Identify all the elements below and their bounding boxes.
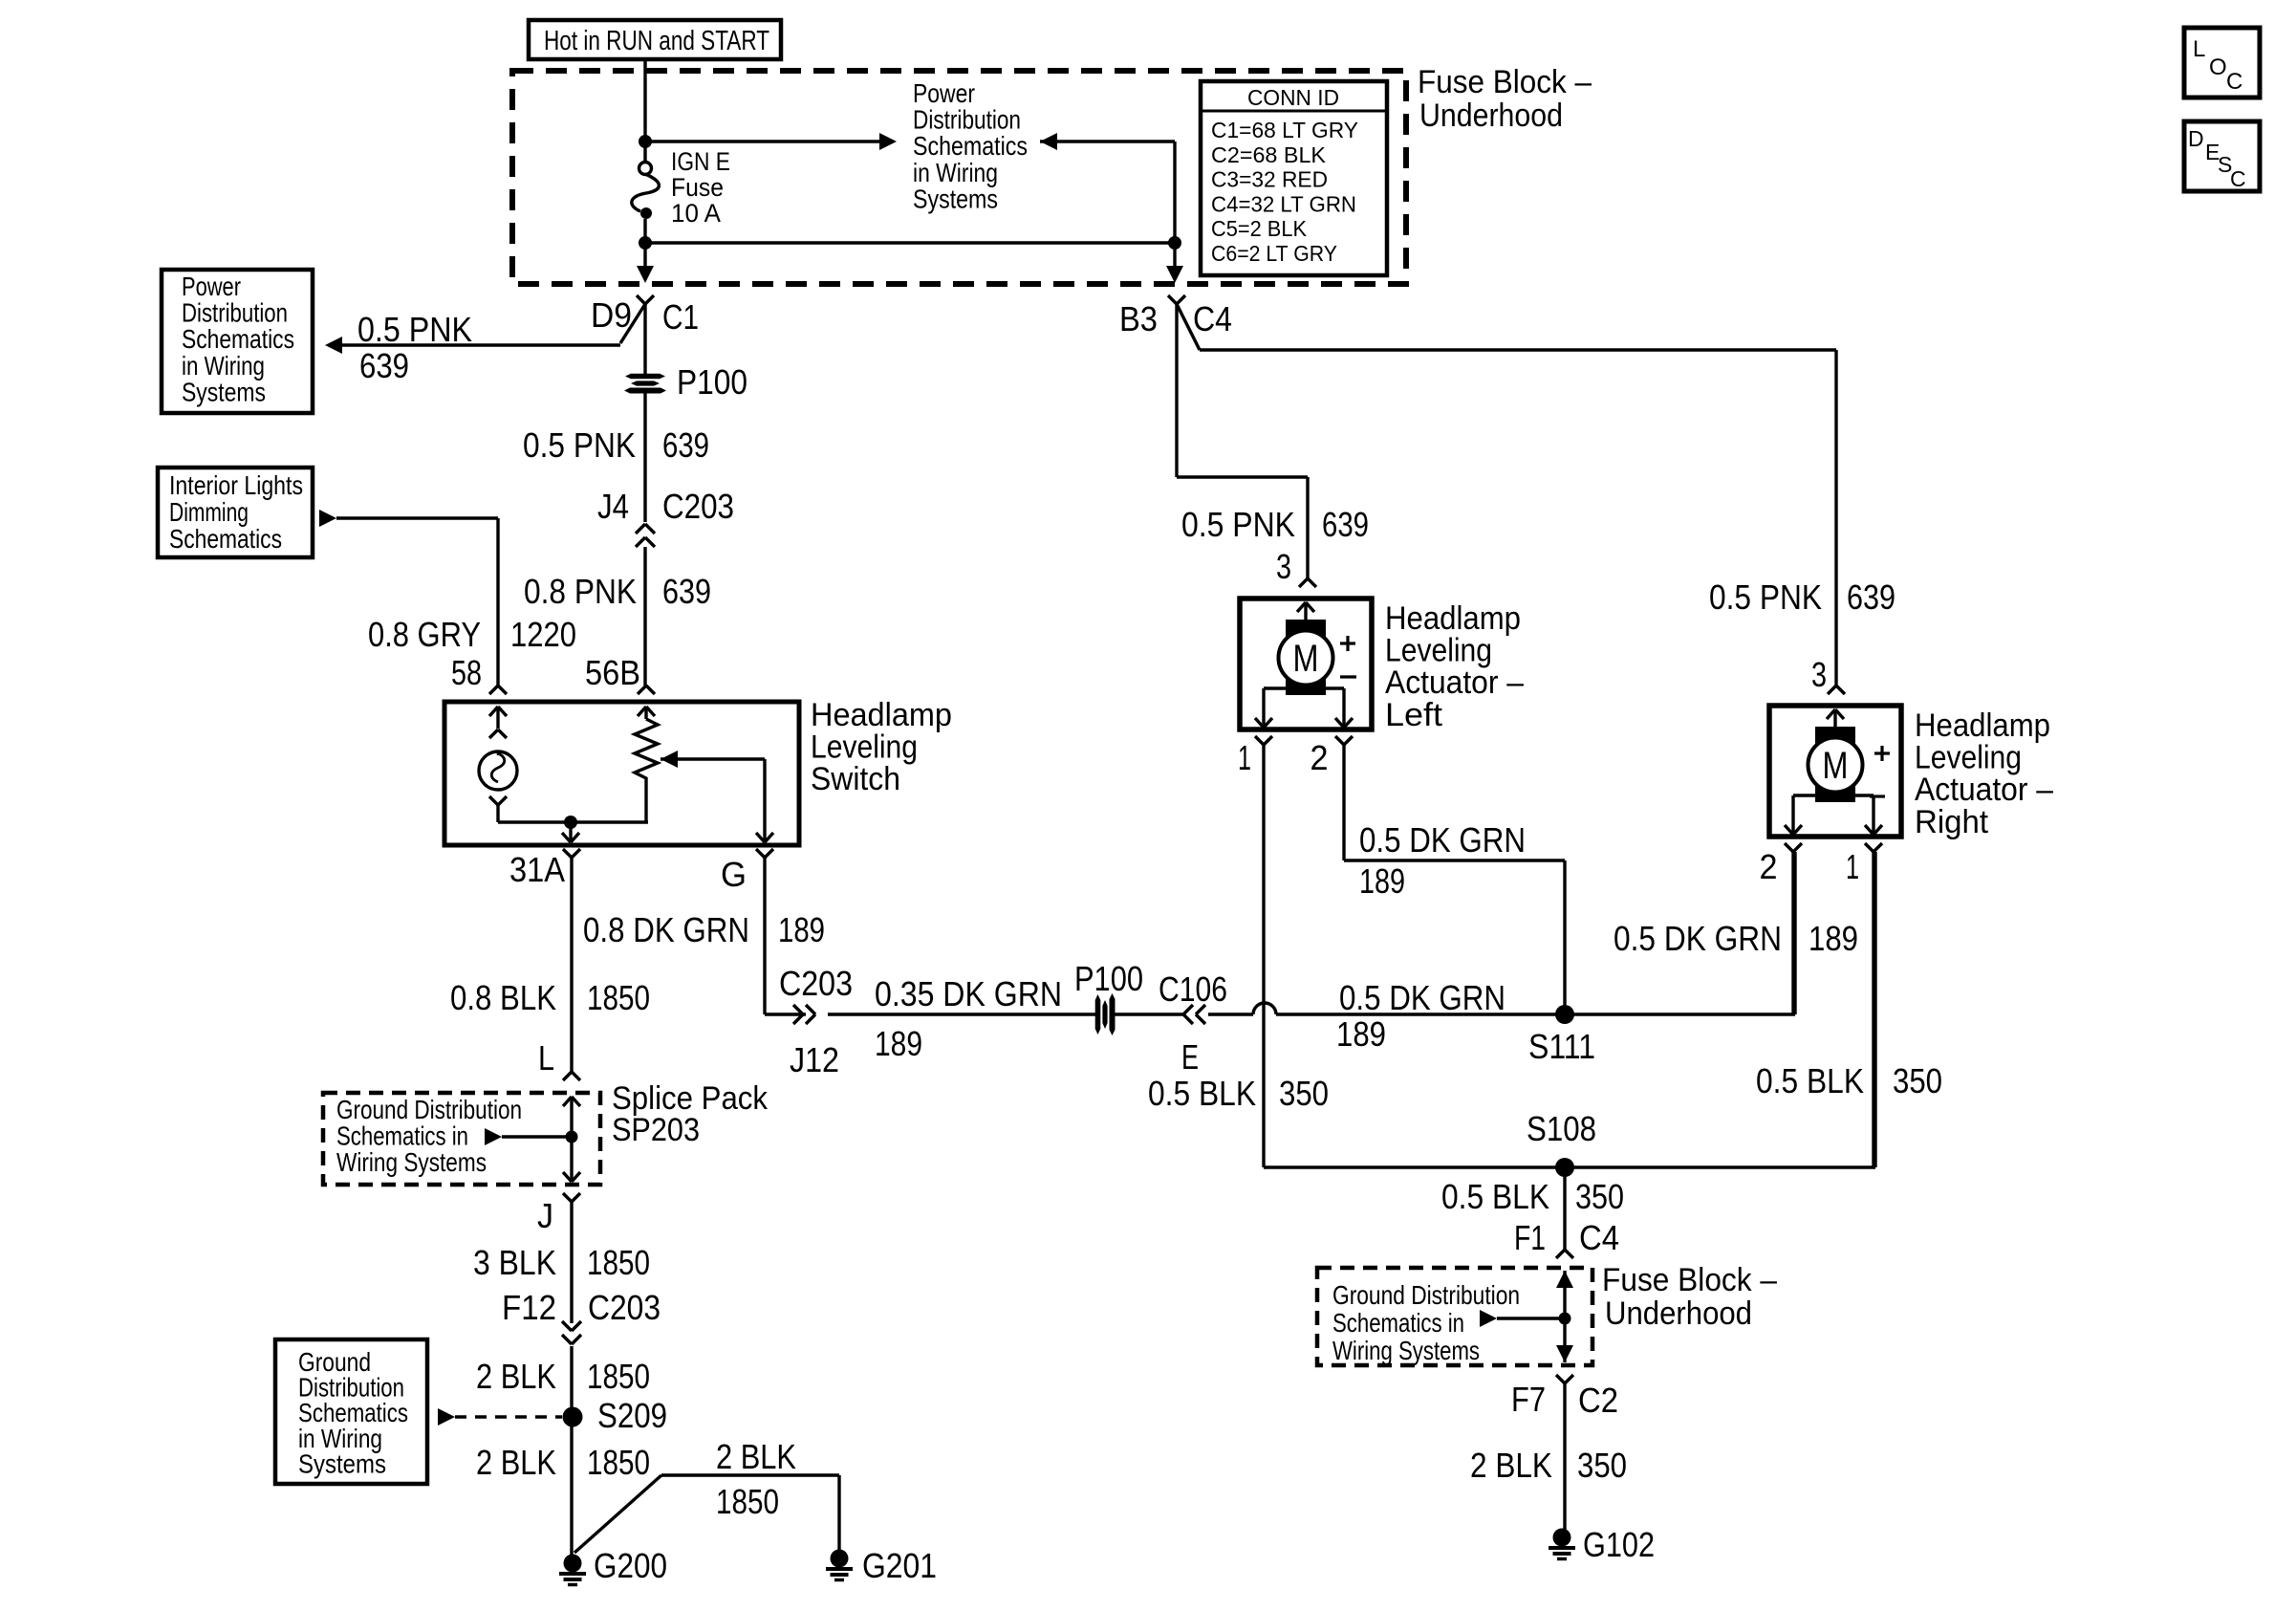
svg-text:C3=32 RED: C3=32 RED (1211, 167, 1328, 192)
svg-text:Schematics: Schematics (913, 131, 1028, 161)
svg-text:D9: D9 (591, 295, 632, 335)
svg-text:0.5 PNK: 0.5 PNK (523, 425, 636, 465)
svg-text:L: L (2193, 36, 2205, 62)
svg-text:3: 3 (1276, 547, 1291, 586)
svg-text:58: 58 (451, 653, 482, 692)
svg-text:2: 2 (1310, 738, 1329, 777)
svg-text:Schematics: Schematics (169, 524, 282, 554)
svg-text:G201: G201 (862, 1546, 937, 1585)
svg-text:P100: P100 (1074, 959, 1143, 998)
svg-text:Leveling: Leveling (1385, 633, 1492, 669)
svg-text:Distribution: Distribution (913, 105, 1021, 135)
svg-text:350: 350 (1577, 1446, 1627, 1485)
svg-text:Systems: Systems (298, 1448, 386, 1478)
svg-text:0.5 PNK: 0.5 PNK (357, 310, 472, 349)
svg-text:Headlamp: Headlamp (1385, 600, 1521, 637)
svg-text:C4=32 LT GRN: C4=32 LT GRN (1211, 191, 1356, 216)
svg-text:Systems: Systems (182, 377, 266, 406)
svg-text:Fuse Block –: Fuse Block – (1418, 64, 1592, 100)
svg-text:350: 350 (1279, 1074, 1329, 1113)
svg-text:C203: C203 (662, 487, 734, 526)
svg-text:M: M (1293, 638, 1319, 680)
svg-text:639: 639 (359, 346, 409, 385)
svg-text:Leveling: Leveling (811, 729, 918, 766)
svg-text:Schematics: Schematics (182, 324, 294, 354)
svg-text:1850: 1850 (587, 978, 650, 1017)
svg-text:L: L (538, 1038, 554, 1078)
svg-text:P100: P100 (677, 362, 747, 402)
svg-text:Wiring Systems: Wiring Systems (336, 1147, 487, 1177)
svg-text:C203: C203 (588, 1288, 661, 1327)
svg-text:3: 3 (1811, 655, 1827, 694)
svg-text:CONN ID: CONN ID (1247, 85, 1339, 110)
svg-text:0.8 GRY: 0.8 GRY (368, 615, 481, 654)
svg-text:189: 189 (778, 910, 825, 949)
svg-text:J: J (537, 1196, 553, 1235)
svg-text:Switch: Switch (811, 761, 900, 797)
svg-text:G200: G200 (594, 1546, 667, 1585)
svg-text:C203: C203 (779, 964, 853, 1003)
svg-text:Systems: Systems (913, 184, 998, 213)
svg-text:C2: C2 (1578, 1381, 1618, 1420)
svg-text:F1: F1 (1514, 1218, 1546, 1257)
svg-text:C4: C4 (1193, 299, 1232, 338)
svg-text:Interior Lights: Interior Lights (169, 470, 303, 500)
svg-text:Fuse: Fuse (671, 173, 724, 202)
svg-text:2: 2 (1760, 847, 1778, 886)
svg-text:189: 189 (1336, 1014, 1386, 1054)
svg-text:Wiring Systems: Wiring Systems (1332, 1336, 1480, 1365)
svg-text:D: D (2188, 126, 2204, 151)
svg-text:Fuse Block –: Fuse Block – (1602, 1262, 1777, 1298)
svg-text:C5=2 BLK: C5=2 BLK (1211, 216, 1308, 241)
svg-text:E: E (1181, 1037, 1199, 1077)
svg-text:F7: F7 (1511, 1380, 1546, 1419)
svg-text:Headlamp: Headlamp (811, 697, 952, 733)
svg-text:Leveling: Leveling (1915, 740, 2022, 776)
svg-text:0.35 DK GRN: 0.35 DK GRN (875, 974, 1062, 1013)
svg-text:C: C (2226, 69, 2242, 95)
svg-text:Actuator –: Actuator – (1385, 664, 1524, 701)
svg-text:Dimming: Dimming (169, 497, 249, 527)
svg-text:O: O (2209, 54, 2227, 80)
svg-text:C1: C1 (662, 297, 699, 337)
svg-text:Ground Distribution: Ground Distribution (336, 1095, 522, 1124)
svg-text:639: 639 (1847, 577, 1895, 617)
svg-text:350: 350 (1575, 1177, 1624, 1216)
svg-text:Schematics in: Schematics in (1332, 1308, 1464, 1338)
svg-text:C1=68 LT GRY: C1=68 LT GRY (1211, 118, 1358, 142)
svg-text:C6=2 LT GRY: C6=2 LT GRY (1211, 241, 1337, 266)
svg-text:in Wiring: in Wiring (182, 351, 265, 381)
svg-text:Ground Distribution: Ground Distribution (1332, 1280, 1520, 1310)
svg-text:1850: 1850 (587, 1357, 650, 1396)
svg-text:31A: 31A (509, 850, 565, 889)
svg-text:S209: S209 (597, 1396, 667, 1435)
svg-text:M: M (1823, 745, 1849, 787)
svg-text:2 BLK: 2 BLK (476, 1357, 556, 1396)
svg-text:Left: Left (1385, 697, 1443, 733)
svg-text:1850: 1850 (587, 1443, 650, 1482)
svg-text:IGN E: IGN E (671, 147, 730, 176)
svg-text:10 A: 10 A (671, 199, 721, 228)
svg-text:Distribution: Distribution (182, 298, 288, 328)
svg-text:Underhood: Underhood (1605, 1295, 1752, 1332)
svg-text:S108: S108 (1527, 1109, 1596, 1148)
svg-text:Headlamp: Headlamp (1915, 708, 2050, 744)
svg-text:1: 1 (1238, 738, 1251, 777)
svg-text:Actuator –: Actuator – (1915, 772, 2053, 808)
svg-text:2 BLK: 2 BLK (716, 1437, 796, 1476)
svg-text:J4: J4 (597, 487, 629, 526)
svg-text:G102: G102 (1583, 1525, 1655, 1564)
svg-text:1: 1 (1846, 847, 1859, 886)
svg-text:1850: 1850 (716, 1482, 779, 1521)
svg-text:0.5 DK GRN: 0.5 DK GRN (1339, 978, 1505, 1017)
svg-text:Power: Power (913, 78, 975, 108)
svg-text:0.5 DK GRN: 0.5 DK GRN (1614, 919, 1782, 958)
svg-text:2 BLK: 2 BLK (1470, 1446, 1552, 1485)
svg-text:F12: F12 (502, 1288, 556, 1327)
svg-text:189: 189 (875, 1024, 922, 1063)
svg-text:Schematics in: Schematics in (336, 1121, 468, 1151)
svg-text:3 BLK: 3 BLK (473, 1243, 556, 1282)
svg-text:in Wiring: in Wiring (913, 158, 998, 187)
svg-text:189: 189 (1809, 919, 1858, 958)
svg-text:SP203: SP203 (612, 1112, 700, 1148)
svg-text:350: 350 (1893, 1061, 1942, 1100)
svg-text:C106: C106 (1159, 969, 1227, 1009)
svg-text:56B: 56B (585, 653, 640, 692)
svg-text:0.8 DK GRN: 0.8 DK GRN (583, 910, 749, 949)
svg-text:Power: Power (182, 272, 241, 301)
svg-text:Right: Right (1915, 804, 1989, 840)
svg-text:0.5 BLK: 0.5 BLK (1148, 1074, 1256, 1113)
svg-text:C4: C4 (1579, 1218, 1619, 1257)
svg-text:1850: 1850 (587, 1243, 650, 1282)
svg-text:Underhood: Underhood (1419, 98, 1563, 134)
svg-text:2 BLK: 2 BLK (476, 1443, 556, 1482)
svg-text:S111: S111 (1528, 1027, 1595, 1066)
svg-text:B3: B3 (1119, 299, 1158, 338)
svg-text:189: 189 (1359, 861, 1405, 901)
svg-text:639: 639 (1322, 505, 1369, 544)
svg-text:0.5 PNK: 0.5 PNK (1181, 505, 1295, 544)
svg-text:0.5 BLK: 0.5 BLK (1441, 1177, 1549, 1216)
svg-text:J12: J12 (790, 1040, 839, 1079)
svg-text:1220: 1220 (510, 615, 576, 654)
svg-text:0.8 BLK: 0.8 BLK (450, 978, 556, 1017)
svg-text:G: G (721, 855, 747, 894)
svg-text:0.5 BLK: 0.5 BLK (1756, 1061, 1864, 1100)
svg-text:Hot in RUN and START: Hot in RUN and START (544, 26, 769, 56)
svg-text:0.5 PNK: 0.5 PNK (1709, 577, 1822, 617)
svg-text:639: 639 (662, 572, 711, 611)
svg-text:639: 639 (662, 425, 709, 465)
svg-text:C: C (2230, 166, 2246, 191)
svg-text:C2=68 BLK: C2=68 BLK (1211, 142, 1327, 167)
svg-text:0.5 DK GRN: 0.5 DK GRN (1359, 820, 1526, 860)
svg-text:0.8 PNK: 0.8 PNK (524, 572, 637, 611)
